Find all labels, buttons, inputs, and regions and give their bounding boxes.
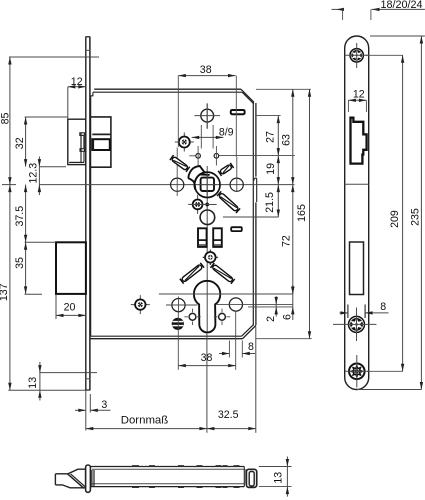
svg-text:13: 13 (272, 472, 284, 484)
svg-text:209: 209 (389, 210, 401, 228)
svg-text:13: 13 (27, 377, 39, 389)
svg-text:38: 38 (201, 352, 213, 364)
svg-text:Dornmaß: Dornmaß (121, 415, 169, 427)
svg-text:12: 12 (353, 88, 365, 100)
svg-text:6: 6 (282, 314, 294, 320)
svg-text:137: 137 (0, 283, 10, 301)
svg-text:18/20/24: 18/20/24 (380, 0, 422, 11)
svg-text:32: 32 (14, 137, 26, 149)
svg-text:12.3: 12.3 (27, 163, 39, 184)
svg-text:38: 38 (200, 64, 212, 76)
svg-text:63: 63 (281, 134, 293, 146)
svg-text:8: 8 (380, 301, 386, 313)
svg-text:21.5: 21.5 (264, 192, 276, 213)
svg-text:3: 3 (101, 399, 107, 411)
svg-text:27: 27 (264, 131, 276, 143)
svg-text:8: 8 (248, 341, 254, 353)
svg-text:165: 165 (296, 204, 308, 222)
svg-text:35: 35 (14, 257, 26, 269)
svg-text:12: 12 (71, 76, 83, 88)
svg-text:37.5: 37.5 (14, 206, 26, 227)
svg-text:85: 85 (0, 113, 12, 125)
svg-text:8/9: 8/9 (219, 127, 234, 139)
svg-text:2: 2 (265, 316, 277, 322)
svg-text:72: 72 (281, 235, 293, 247)
svg-text:235: 235 (410, 208, 422, 226)
svg-text:32.5: 32.5 (218, 409, 239, 421)
svg-text:19: 19 (265, 163, 277, 175)
svg-text:20: 20 (64, 302, 76, 314)
